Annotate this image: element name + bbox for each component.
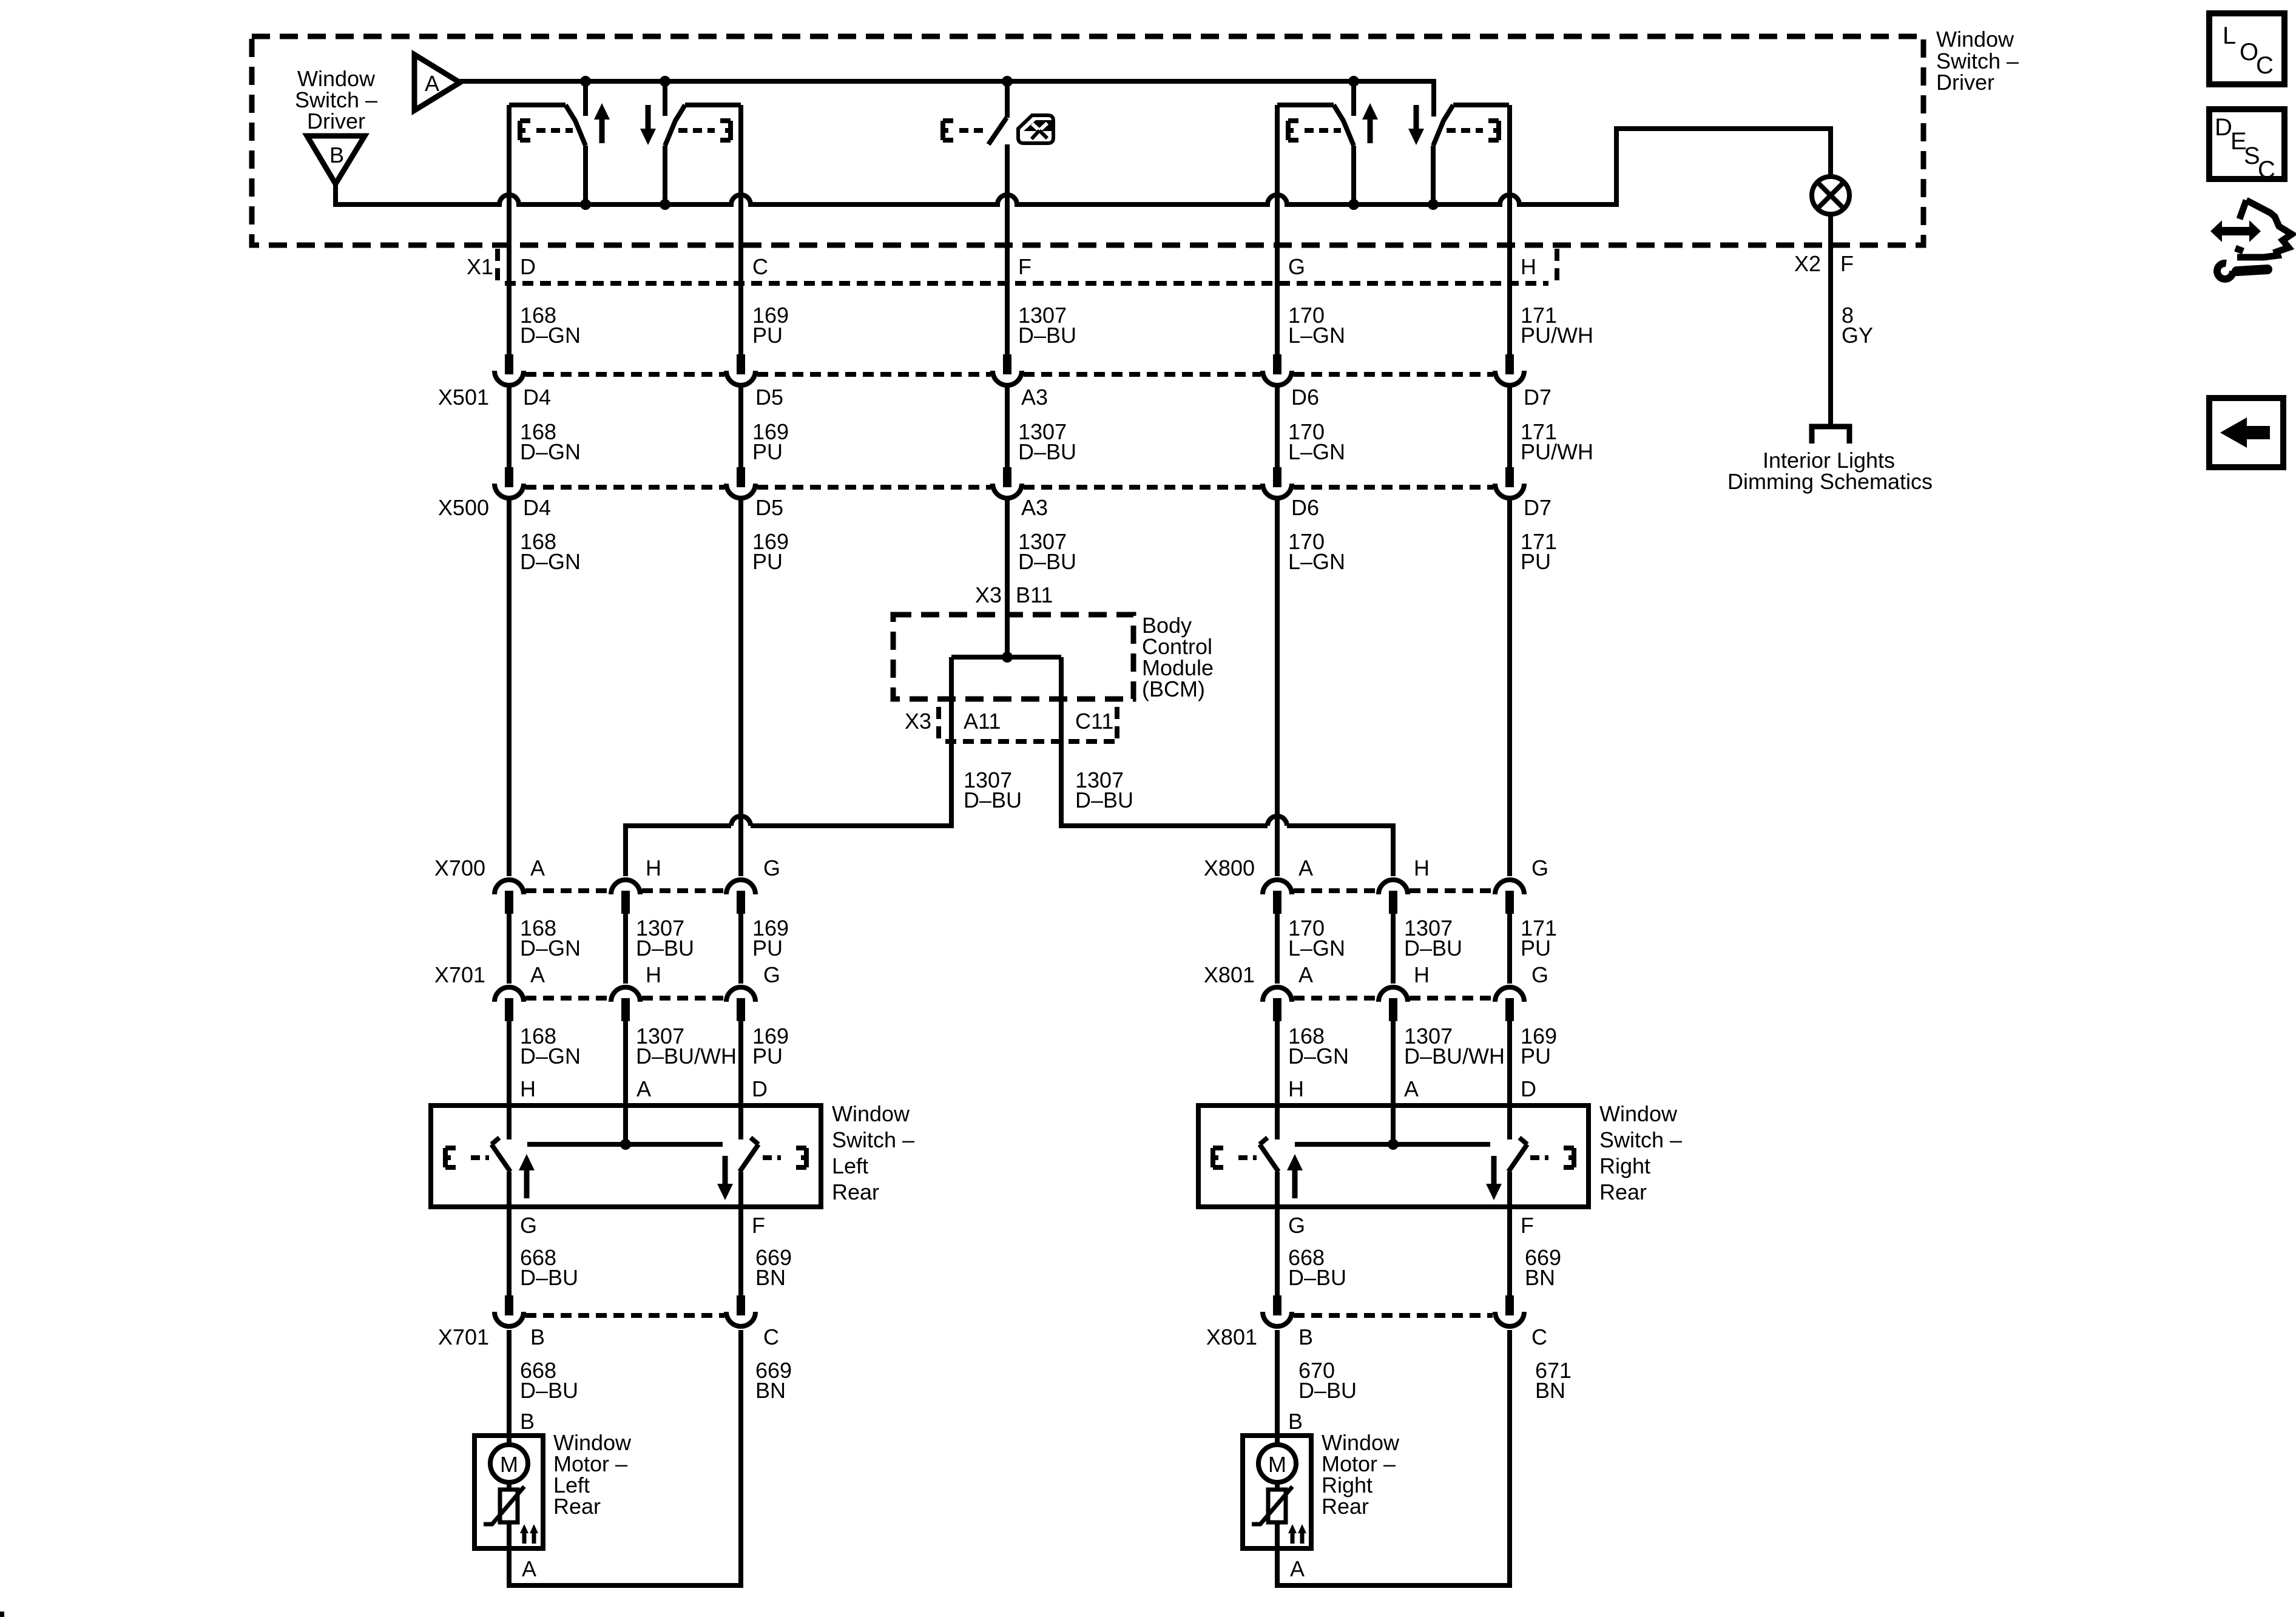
label Body Control Module (BCM) [1142,613,1214,701]
svg-text:G: G [520,1213,537,1238]
Window|Switch –|Right|Rear up-switch blade [1260,1138,1278,1172]
svg-text:B: B [1298,1325,1313,1349]
svg-text:D7: D7 [1524,495,1551,520]
schematic reference icon (arrow and wrench) [2210,200,2292,279]
svg-text:D–BU/WH: D–BU/WH [636,1044,737,1068]
wire label 669 BN to motor left [755,1358,792,1403]
interior lights reference symbol [1812,427,1849,444]
wire label 1307 D-BU below X800 [1404,916,1462,960]
svg-text:G: G [1288,254,1305,279]
label Window|Motor –|Right|Rear [1322,1430,1400,1519]
svg-text:L–GN: L–GN [1288,936,1345,960]
svg-text:D: D [752,1076,768,1101]
Window|Motor –|Left|Rear return loop wire [509,1330,741,1585]
Window|Motor –|Right|Rear return loop wire [1277,1330,1510,1585]
svg-text:PU: PU [1521,936,1551,960]
svg-text:D–BU: D–BU [964,788,1022,812]
connector X800 pin A [1263,880,1292,914]
svg-text:PU: PU [752,439,783,464]
BCM branch C11 wire [1061,657,1393,876]
hop of A11 branch over wire 169 [731,816,751,826]
svg-text:D: D [2215,114,2232,141]
driver switch pair 2 up-switch blade [1334,105,1354,146]
wire 169 PU long run [738,499,743,876]
svg-text:BN: BN [755,1378,786,1403]
svg-text:D7: D7 [1524,385,1551,410]
svg-text:G: G [1531,856,1548,880]
svg-text:D–GN: D–GN [520,323,581,348]
wire 669 BN right [1507,1207,1512,1295]
svg-text:D–BU: D–BU [1288,1265,1346,1290]
wire label 671 BN to motor right [1535,1358,1572,1403]
Window|Switch –|Right|Rear box [1198,1106,1589,1207]
bus wire A (battery feed) [460,81,1434,116]
hop of C11 branch over wire 170 [1268,816,1287,826]
svg-text:L–GN: L–GN [1288,439,1345,464]
connector X701 lower pin B [495,1295,524,1326]
svg-text:X500: X500 [438,495,489,520]
Window|Switch –|Left|Rear pin letters G F [520,1213,765,1238]
driver switch pair 1 up-switch lower contact wire [583,146,588,204]
wire 168 D-GN segment 1 [507,105,512,354]
mech link bracket pair 1 down [720,121,731,140]
Window|Motor –|Right|Rear thermal limiter [1252,1487,1292,1524]
svg-text:PU: PU [752,549,783,574]
wire 669 BN left [738,1207,743,1295]
svg-text:A: A [530,962,545,987]
mech link dashes pair 1 down [678,128,715,133]
down arrow pair 1 [640,105,656,145]
label X3 B11 [975,582,1053,607]
svg-text:X3: X3 [905,709,931,734]
svg-text:C: C [752,254,768,279]
wire label 168 D-GN below X801 [1288,1024,1349,1068]
wire 1307 D-BU segment 2 [1005,386,1010,467]
Window|Motor –|Left|Rear thermal limiter [484,1487,524,1524]
label Window|Switch –|Right|Rear [1599,1101,1682,1204]
svg-text:A: A [636,1076,651,1101]
wire label 171 PU row3 [1521,529,1557,574]
Window|Motor –|Left|Rear double up arrows [520,1524,538,1544]
driver switch pair 1 up-switch stub from bus A [583,81,588,116]
X801 lower pin letters [1298,1325,1547,1349]
wire segment X700 to X701 [738,914,743,984]
Window|Motor –|Right|Rear internal link [1275,1482,1280,1490]
driver switch pair 1 down-switch stub from bus A [663,81,667,116]
svg-text:X800: X800 [1204,856,1255,880]
Window|Switch –|Right|Rear up-switch output wire [1275,1172,1280,1207]
svg-text:X3: X3 [975,582,1002,607]
svg-text:C: C [2256,52,2274,79]
junction dot express switch [1002,76,1013,87]
svg-text:Left: Left [832,1153,868,1178]
svg-text:G: G [763,962,780,987]
label Window Switch - Driver (right) [1936,27,2019,95]
connector X800 pin H [1379,880,1408,914]
wire label 669 BN left [755,1245,792,1290]
Window|Switch –|Right|Rear left mech dashes [1238,1155,1257,1160]
Window|Switch –|Right|Rear pin letters G F [1288,1213,1534,1238]
wire label 670 D-BU to motor right [1298,1358,1357,1403]
wire 1307 D-BU run to BCM [1005,499,1010,657]
svg-text:A11: A11 [964,709,1001,734]
driver switch pair 2 up-switch lower contact wire [1351,146,1356,204]
window express icon [1018,115,1053,143]
wire label 168 D-GN below X701 [520,1024,581,1068]
svg-text:A: A [1298,856,1313,880]
svg-text:Right: Right [1599,1153,1650,1178]
X701 pin letters [530,962,780,987]
wire 171 PU/WH segment 2 [1507,386,1512,467]
mech link dashes pair 2 down [1447,128,1483,133]
Window|Motor –|Right|Rear double up arrows [1288,1524,1306,1544]
wire into Window|Motor –|Left|Rear pin B [507,1330,512,1445]
svg-text:D4: D4 [523,385,551,410]
svg-text:B: B [329,143,344,167]
svg-text:M: M [1268,1452,1286,1477]
svg-text:D4: D4 [523,495,551,520]
connector X701 pin A [495,987,524,1021]
connector X500 pin D6 [1263,467,1292,498]
svg-text:D6: D6 [1291,385,1319,410]
svg-text:H: H [1288,1076,1304,1101]
svg-text:Rear: Rear [1322,1494,1369,1519]
wire label 171 PU below X800 [1521,916,1557,960]
wire label 170 L-GN row2 [1288,419,1345,464]
wire 170 L-GN segment 1 [1275,105,1280,354]
svg-text:Window: Window [1599,1101,1678,1126]
svg-text:B11: B11 [1016,582,1053,607]
svg-text:Window: Window [1936,27,2014,52]
svg-text:F: F [752,1213,765,1238]
body control module box (dashed) [893,615,1133,699]
svg-text:Switch –: Switch – [1599,1127,1682,1152]
X1 pin letters [520,254,1536,279]
Window|Switch –|Right|Rear up arrow [1287,1154,1303,1198]
connector X1 row [498,249,1557,283]
connector X501 row dashes [525,372,1493,377]
svg-text:L: L [2223,22,2236,49]
svg-text:Window: Window [832,1101,910,1126]
svg-text:A: A [1404,1076,1419,1101]
svg-text:A: A [530,856,545,880]
junction dots pair 2 up [1348,76,1359,87]
svg-text:D: D [520,254,536,279]
label Window|Switch –|Left|Rear [832,1101,914,1204]
wire label 8 GY [1842,303,1873,348]
illumination lamp [1812,177,1849,214]
driver switch pair 1 down-switch frame [685,103,741,107]
svg-text:X700: X700 [434,856,485,880]
driver switch pair 1 down-switch lower contact wire [663,146,667,204]
wire label 1307 D-BU/WH below X801 [1404,1024,1505,1068]
svg-text:X701: X701 [434,962,485,987]
wire segment X800 to X801 [1507,914,1512,984]
wire 169 PU segment 1 [738,105,743,354]
connector X801 pin G [1495,987,1524,1021]
svg-text:H: H [1521,254,1536,279]
svg-text:C: C [2258,157,2275,183]
svg-text:A3: A3 [1021,385,1048,410]
svg-text:D5: D5 [755,495,783,520]
svg-text:A: A [522,1556,536,1581]
svg-text:PU: PU [752,323,783,348]
wire label 1307 D-BU row3 [1018,529,1076,574]
wire into Window|Switch –|Left|Rear pin H [507,1021,512,1139]
svg-text:H: H [646,962,661,987]
connector X501 pin A3 [993,354,1022,385]
svg-text:Rear: Rear [832,1180,879,1204]
connector X700 row dashes [525,888,724,893]
up arrow pair 1 [594,103,610,143]
Window|Switch –|Left|Rear left mech dashes [471,1155,489,1160]
connector X700 pin G [726,880,755,914]
driver switch pair 1 up-switch blade [566,105,586,146]
connector X700 pin H [611,880,640,914]
connector X500 pin D4 [495,467,524,498]
svg-text:D–BU: D–BU [1298,1378,1357,1403]
svg-text:H: H [1414,962,1430,987]
Window|Switch –|Left|Rear up arrow [519,1154,535,1198]
express switch blade [988,118,1007,144]
svg-text:M: M [500,1452,518,1477]
junction dot pair 2 down [1428,199,1439,210]
lamp wire to X2 [1828,214,1833,425]
connector X701 lower pin C [726,1295,755,1326]
connector X801 pin H [1379,987,1408,1021]
Window|Switch –|Right|Rear down arrow [1486,1156,1502,1200]
svg-text:PU: PU [752,1044,783,1068]
connector X801 lower pin B [1263,1295,1292,1326]
svg-text:D: D [1521,1076,1536,1101]
connector X501 pin D7 [1495,354,1524,385]
wire 1307 D-BU segment 1 [1005,144,1010,354]
svg-text:A3: A3 [1021,495,1048,520]
Window|Switch –|Right|Rear left mech bracket [1213,1148,1223,1167]
Window|Switch –|Left|Rear down arrow [717,1156,733,1200]
express switch stub from bus A [1005,81,1010,118]
Window|Switch –|Left|Rear up-switch output wire [507,1172,512,1207]
wire 170 L-GN long run [1275,499,1280,876]
connector X800 row dashes [1294,888,1493,893]
window switch driver enclosure (dashed box) [252,36,1923,245]
svg-text:D–GN: D–GN [520,936,581,960]
connector X500 pin A3 [993,467,1022,498]
wire label 171 PU/WH row1 [1521,303,1593,348]
wire 171 PU long run [1507,499,1512,876]
mech link dashes pair 1 up [536,128,573,133]
Window|Motor –|Right|Rear box [1243,1436,1311,1548]
X701 lower pin letters [530,1325,779,1349]
wire segment X700 to X701 [623,914,628,984]
wire into Window|Switch –|Right|Rear pin D [1507,1021,1512,1139]
Window|Switch –|Right|Rear right mech bracket [1564,1148,1574,1167]
svg-text:D–BU: D–BU [1018,439,1076,464]
mech link dashes pair 2 up [1305,128,1341,133]
svg-text:L–GN: L–GN [1288,549,1345,574]
svg-text:F: F [1018,254,1032,279]
svg-text:X801: X801 [1206,1325,1257,1349]
svg-text:C: C [1531,1325,1547,1349]
connector X501 pin D4 [495,354,524,385]
Window|Motor –|Left|Rear internal link [507,1482,512,1490]
Window|Switch –|Right|Rear pin letters H A D [1288,1076,1536,1101]
wire 170 L-GN segment 2 [1275,386,1280,467]
svg-text:A: A [1298,962,1313,987]
Window|Switch –|Left|Rear bar junction dot [620,1139,631,1150]
label Window Switch - Driver (left) [295,66,377,133]
wire into Window|Motor –|Right|Rear pin B [1275,1330,1280,1445]
Window|Switch –|Left|Rear pin letters H A D [520,1076,768,1101]
svg-text:Driver: Driver [1936,70,1994,95]
wire 168 D-GN long run [507,499,512,876]
Window|Motor –|Left|Rear box [474,1436,543,1548]
BCM pin letters A11 C11 [964,709,1113,734]
connector X701 row dashes [525,996,724,1001]
svg-text:PU/WH: PU/WH [1521,439,1593,464]
svg-text:Dimming Schematics: Dimming Schematics [1727,469,1933,494]
Window|Motor –|Left|Rear M circle [490,1445,528,1482]
junction dots pair 1 down [660,76,670,87]
mech link bracket express switch [943,121,953,140]
Window|Switch –|Left|Rear left mech bracket [445,1148,456,1167]
wire label 169 PU below X801 [1521,1024,1557,1068]
Window|Switch –|Left|Rear internal bar [527,1142,723,1147]
svg-text:H: H [1414,856,1430,880]
svg-text:D–BU: D–BU [636,936,694,960]
svg-text:PU: PU [752,936,783,960]
back button [2209,398,2283,467]
connector X800 pin G [1495,880,1524,914]
wire segment X700 to X701 [507,914,512,984]
driver switch pair 1 down-switch blade [665,105,685,146]
svg-text:L–GN: L–GN [1288,323,1345,348]
svg-text:BN: BN [1535,1378,1565,1403]
svg-text:PU: PU [1521,549,1551,574]
wire 668 D-BU right [1275,1207,1280,1295]
X800 pin letters [1298,856,1548,880]
wire label 169 PU below X700 [752,916,789,960]
BCM X3 connector row [939,707,1117,741]
svg-text:D–BU: D–BU [520,1378,578,1403]
Window|Switch –|Right|Rear internal bar [1295,1142,1490,1147]
triangle reference B [307,136,365,184]
svg-text:B: B [530,1325,545,1349]
junction dots pair 1 up [580,76,591,87]
wire label 1307 D-BU below X700 [636,916,694,960]
svg-text:BN: BN [1525,1265,1555,1290]
svg-text:A: A [425,71,439,96]
driver switch pair 1 up-switch frame [509,103,566,107]
svg-text:X701: X701 [438,1325,489,1349]
wire label 171 PU/WH row2 [1521,419,1593,464]
mech link dashes express switch [959,128,985,133]
wire label 168 D-GN below X700 [520,916,581,960]
wire segment X800 to X801 [1275,914,1280,984]
svg-text:D–BU: D–BU [1018,549,1076,574]
svg-text:D–BU: D–BU [520,1265,578,1290]
svg-text:F: F [1840,251,1854,276]
Window|Switch –|Left|Rear box [431,1106,821,1207]
svg-text:D5: D5 [755,385,783,410]
driver switch pair 2 up-switch stub from bus A [1351,81,1356,116]
svg-text:F: F [1521,1213,1534,1238]
wire label 668 D-BU left [520,1245,578,1290]
svg-text:D–BU: D–BU [1018,323,1076,348]
Window|Switch –|Left|Rear up-switch blade [491,1138,510,1172]
mech link bracket pair 2 up [1288,121,1298,140]
connector X701 lower row dashes [525,1313,724,1318]
connector X801 pin A [1263,987,1292,1021]
svg-text:X801: X801 [1204,962,1255,987]
connector X801 lower row dashes [1294,1313,1493,1318]
wire label 1307 D-BU row1 [1018,303,1076,348]
wire label 170 L-GN below X800 [1288,916,1345,960]
connector X501 pin D6 [1263,354,1292,385]
connector X500 row dashes [525,485,1493,490]
wire label 1307 D-BU left branch [964,768,1022,812]
label X2 and pin F [1794,251,1854,276]
wire label 169 PU row3 [752,529,789,574]
X801 pin letters [1298,962,1548,987]
wire label 168 D-GN row3 [520,529,581,574]
X700 pin letters [530,856,780,880]
svg-text:PU: PU [1521,1044,1551,1068]
connector X501 pin D5 [726,354,755,385]
svg-text:PU/WH: PU/WH [1521,323,1593,348]
label Interior Lights Dimming Schematics [1727,448,1933,494]
svg-text:GY: GY [1842,323,1873,348]
svg-text:Driver: Driver [307,109,365,133]
wire into Window|Switch –|Left|Rear pin D [738,1021,743,1139]
wire label 168 D-GN row2 [520,419,581,464]
svg-text:G: G [763,856,780,880]
wire label 170 L-GN row3 [1288,529,1345,574]
Window|Switch –|Right|Rear bar junction dot [1388,1139,1399,1150]
X500 pin letters [523,495,1551,520]
connector X700 pin A [495,880,524,914]
svg-text:X2: X2 [1794,251,1821,276]
wire label 1307 D-BU right branch [1075,768,1133,812]
wire label 168 D-GN row1 [520,303,581,348]
svg-text:D–BU: D–BU [1075,788,1133,812]
bus wire B (common return) with hops [336,129,1831,204]
label Window|Motor –|Left|Rear [553,1430,632,1519]
svg-text:H: H [520,1076,536,1101]
wire label 169 PU below X701 [752,1024,789,1068]
wire label 170 L-GN row1 [1288,303,1345,348]
Window|Switch –|Left|Rear down-switch blade [740,1138,758,1172]
Window|Switch –|Left|Rear down-switch output wire [738,1172,743,1207]
svg-text:C: C [763,1325,779,1349]
connector X801 lower pin C [1495,1295,1524,1326]
driver switch pair 2 down-switch blade [1433,105,1453,146]
wire 169 PU segment 2 [738,386,743,467]
connector X500 pin D5 [726,467,755,498]
driver switch pair 2 down-switch lower contact wire [1431,146,1436,204]
triangle reference A [414,55,460,110]
down arrow pair 2 [1408,105,1424,145]
LOC button [2209,13,2284,84]
driver switch pair 2 down-switch frame [1453,103,1509,107]
wire 168 D-GN segment 2 [507,386,512,467]
mech link bracket pair 1 up [520,121,530,140]
Window|Switch –|Left|Rear right mech bracket [796,1148,806,1167]
DESC button [2209,109,2284,183]
Window|Motor –|Right|Rear M circle [1258,1445,1296,1482]
wire into Window|Switch –|Right|Rear pin H [1275,1021,1280,1139]
Window|Switch –|Right|Rear down-switch output wire [1507,1172,1512,1207]
